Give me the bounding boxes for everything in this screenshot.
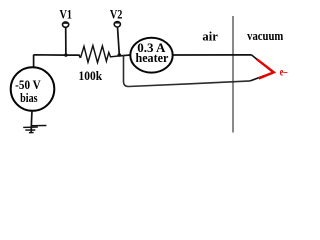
svg-text:100k: 100k [79, 68, 103, 83]
svg-text:e–: e– [280, 66, 288, 79]
resistor R 100k zigzag [81, 46, 120, 63]
vacuum chamber wall [232, 16, 234, 133]
voltage source V3: -50 V bias [11, 67, 55, 111]
wire: top rail from bias corner to resistor [34, 55, 81, 67]
svg-text:heater: heater [135, 51, 168, 65]
wire: bias bottom to ground [30, 111, 33, 133]
svg-text:V1: V1 [60, 7, 73, 21]
terminal V2 [114, 22, 120, 27]
node junction dot at V1 lead [64, 53, 67, 56]
terminal V1 [63, 22, 69, 27]
wire: V2 lead down to top rail [118, 27, 120, 55]
svg-text:vacuum: vacuum [247, 28, 283, 43]
filament emitter tip highlight (red) [257, 59, 274, 78]
wire: V1 lead down to top rail [65, 27, 67, 55]
filament tip (black chevron) [250, 55, 273, 81]
wire: return rail from V2 node down and right to filament bottom leg [124, 55, 251, 87]
wire: heater to filament top leg [173, 54, 252, 56]
svg-text:air: air [202, 29, 218, 43]
svg-text:bias: bias [20, 91, 38, 105]
wire: node to heater ellipse [119, 54, 130, 57]
svg-text:V2: V2 [110, 7, 123, 21]
ammeter / heater supply U1: 0.3 A heater [130, 38, 172, 73]
ground [23, 126, 46, 133]
node junction dot at V2 lead [118, 53, 122, 57]
